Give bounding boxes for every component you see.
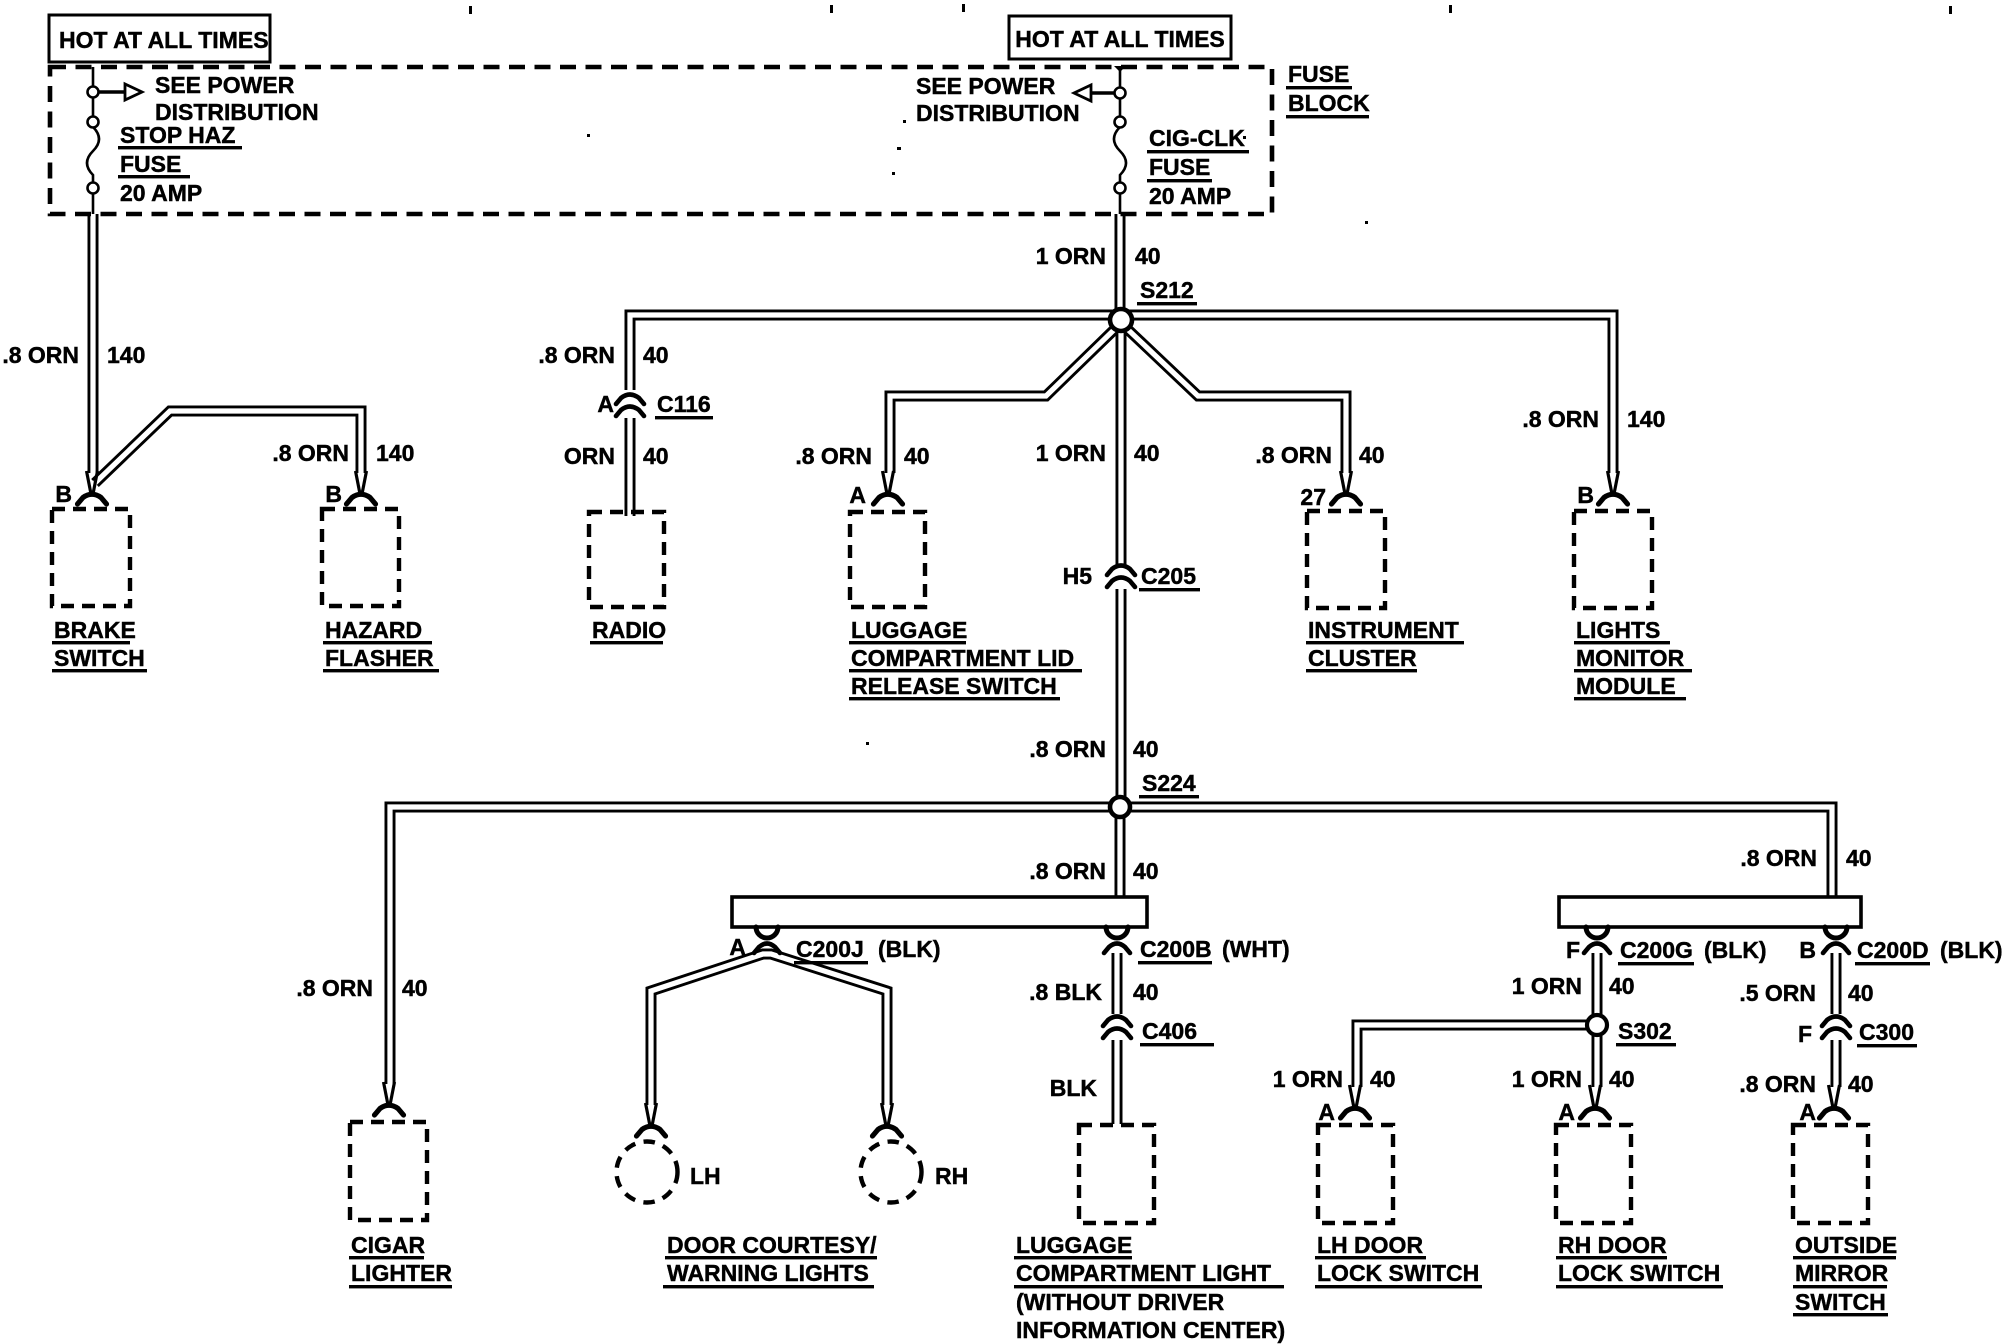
- svg-text:.8 ORN: .8 ORN: [795, 443, 872, 469]
- svg-text:A: A: [1318, 1099, 1335, 1125]
- svg-text:LUGGAGE: LUGGAGE: [851, 617, 967, 643]
- svg-text:.8 ORN: .8 ORN: [1739, 1071, 1816, 1097]
- svg-text:RADIO: RADIO: [592, 617, 666, 643]
- svg-text:S302: S302: [1618, 1018, 1672, 1044]
- svg-text:DOOR COURTESY/: DOOR COURTESY/: [667, 1232, 877, 1258]
- svg-text:CIG-CLK: CIG-CLK: [1149, 125, 1245, 151]
- svg-text:.5 ORN: .5 ORN: [1739, 980, 1816, 1006]
- svg-text:A: A: [729, 934, 746, 960]
- svg-text:STOP HAZ: STOP HAZ: [120, 122, 235, 148]
- svg-text:B: B: [325, 481, 342, 507]
- svg-text:SWITCH: SWITCH: [54, 645, 145, 671]
- svg-text:(BLK): (BLK): [878, 936, 941, 962]
- svg-text:ORN: ORN: [564, 443, 615, 469]
- svg-text:1 ORN: 1 ORN: [1036, 440, 1106, 466]
- svg-text:.8 ORN: .8 ORN: [1029, 858, 1106, 884]
- svg-text:FUSE: FUSE: [1288, 61, 1349, 87]
- svg-text:LH: LH: [690, 1163, 721, 1189]
- svg-text:BLOCK: BLOCK: [1288, 90, 1370, 116]
- svg-text:SEE POWER: SEE POWER: [916, 73, 1056, 99]
- svg-text:HAZARD: HAZARD: [325, 617, 422, 643]
- svg-text:C116: C116: [657, 391, 711, 417]
- svg-text:LOCK SWITCH: LOCK SWITCH: [1558, 1260, 1720, 1286]
- svg-text:HOT AT ALL TIMES: HOT AT ALL TIMES: [59, 27, 269, 53]
- svg-text:140: 140: [107, 342, 145, 368]
- svg-text:40: 40: [1133, 979, 1159, 1005]
- svg-text:WARNING LIGHTS: WARNING LIGHTS: [667, 1260, 869, 1286]
- svg-text:40: 40: [643, 342, 669, 368]
- svg-text:HOT AT ALL TIMES: HOT AT ALL TIMES: [1015, 26, 1225, 52]
- svg-text:1 ORN: 1 ORN: [1512, 973, 1582, 999]
- svg-text:B: B: [1577, 482, 1594, 508]
- svg-text:40: 40: [1848, 980, 1874, 1006]
- svg-text:LOCK SWITCH: LOCK SWITCH: [1317, 1260, 1479, 1286]
- svg-text:.8 ORN: .8 ORN: [1740, 845, 1817, 871]
- svg-text:A: A: [849, 482, 866, 508]
- svg-text:B: B: [55, 481, 72, 507]
- svg-text:FLASHER: FLASHER: [325, 645, 434, 671]
- svg-text:DISTRIBUTION: DISTRIBUTION: [916, 100, 1080, 126]
- svg-text:.8 ORN: .8 ORN: [1029, 736, 1106, 762]
- svg-text:CLUSTER: CLUSTER: [1308, 645, 1417, 671]
- svg-text:OUTSIDE: OUTSIDE: [1795, 1232, 1897, 1258]
- svg-text:COMPARTMENT LID: COMPARTMENT LID: [851, 645, 1074, 671]
- svg-text:(WHT): (WHT): [1222, 936, 1290, 962]
- svg-text:A: A: [1558, 1099, 1575, 1125]
- svg-text:MIRROR: MIRROR: [1795, 1260, 1889, 1286]
- svg-text:.8 BLK: .8 BLK: [1029, 979, 1102, 1005]
- svg-text:FUSE: FUSE: [1149, 154, 1210, 180]
- svg-text:1 ORN: 1 ORN: [1273, 1066, 1343, 1092]
- svg-text:CIGAR: CIGAR: [351, 1232, 426, 1258]
- svg-text:LUGGAGE: LUGGAGE: [1016, 1232, 1132, 1258]
- svg-text:.8 ORN: .8 ORN: [538, 342, 615, 368]
- svg-text:(BLK): (BLK): [1704, 937, 1767, 963]
- svg-text:INFORMATION CENTER): INFORMATION CENTER): [1016, 1317, 1285, 1343]
- svg-text:C200G: C200G: [1620, 937, 1693, 963]
- svg-text:SEE POWER: SEE POWER: [155, 72, 295, 98]
- svg-text:40: 40: [1846, 845, 1872, 871]
- svg-text:S212: S212: [1140, 277, 1194, 303]
- svg-text:(BLK): (BLK): [1940, 937, 2002, 963]
- svg-text:LIGHTS: LIGHTS: [1576, 617, 1660, 643]
- svg-text:.8 ORN: .8 ORN: [1255, 442, 1332, 468]
- svg-text:C200B: C200B: [1140, 936, 1212, 962]
- svg-text:.8 ORN: .8 ORN: [296, 975, 373, 1001]
- svg-text:F: F: [1566, 937, 1580, 963]
- svg-text:A: A: [1799, 1099, 1816, 1125]
- svg-text:C300: C300: [1859, 1019, 1914, 1045]
- svg-text:40: 40: [1609, 973, 1635, 999]
- svg-text:40: 40: [1133, 736, 1159, 762]
- svg-text:MONITOR: MONITOR: [1576, 645, 1685, 671]
- svg-text:1 ORN: 1 ORN: [1036, 243, 1106, 269]
- svg-text:40: 40: [643, 443, 669, 469]
- svg-text:S224: S224: [1142, 770, 1196, 796]
- svg-text:MODULE: MODULE: [1576, 673, 1676, 699]
- svg-text:40: 40: [1359, 442, 1385, 468]
- svg-text:40: 40: [1370, 1066, 1396, 1092]
- svg-text:BLK: BLK: [1050, 1075, 1098, 1101]
- svg-text:140: 140: [376, 440, 414, 466]
- svg-text:40: 40: [1609, 1066, 1635, 1092]
- svg-text:40: 40: [1135, 243, 1161, 269]
- svg-text:40: 40: [904, 443, 930, 469]
- svg-text:RELEASE SWITCH: RELEASE SWITCH: [851, 673, 1057, 699]
- svg-text:.8 ORN: .8 ORN: [272, 440, 349, 466]
- svg-text:LIGHTER: LIGHTER: [351, 1260, 452, 1286]
- svg-text:F: F: [1798, 1021, 1812, 1047]
- svg-text:40: 40: [402, 975, 428, 1001]
- svg-text:20 AMP: 20 AMP: [1149, 183, 1231, 209]
- svg-text:1 ORN: 1 ORN: [1512, 1066, 1582, 1092]
- svg-text:C406: C406: [1142, 1018, 1197, 1044]
- svg-text:20 AMP: 20 AMP: [120, 180, 202, 206]
- svg-text:40: 40: [1848, 1071, 1874, 1097]
- svg-text:H5: H5: [1063, 563, 1093, 589]
- svg-text:RH: RH: [935, 1163, 968, 1189]
- svg-text:B: B: [1799, 937, 1816, 963]
- svg-text:FUSE: FUSE: [120, 151, 181, 177]
- svg-text:SWITCH: SWITCH: [1795, 1289, 1886, 1315]
- svg-text:C205: C205: [1141, 563, 1196, 589]
- svg-text:(WITHOUT DRIVER: (WITHOUT DRIVER: [1016, 1289, 1225, 1315]
- svg-text:COMPARTMENT LIGHT: COMPARTMENT LIGHT: [1016, 1260, 1271, 1286]
- svg-text:.8 ORN: .8 ORN: [1522, 406, 1599, 432]
- svg-text:40: 40: [1134, 440, 1160, 466]
- svg-text:A: A: [597, 391, 614, 417]
- svg-text:.8 ORN: .8 ORN: [2, 342, 79, 368]
- svg-text:INSTRUMENT: INSTRUMENT: [1308, 617, 1459, 643]
- svg-text:C200J: C200J: [796, 936, 864, 962]
- svg-text:140: 140: [1627, 406, 1665, 432]
- svg-text:BRAKE: BRAKE: [54, 617, 136, 643]
- svg-text:C200D: C200D: [1857, 937, 1929, 963]
- svg-text:40: 40: [1133, 858, 1159, 884]
- svg-text:27: 27: [1300, 484, 1326, 510]
- svg-text:RH DOOR: RH DOOR: [1558, 1232, 1667, 1258]
- svg-text:LH DOOR: LH DOOR: [1317, 1232, 1423, 1258]
